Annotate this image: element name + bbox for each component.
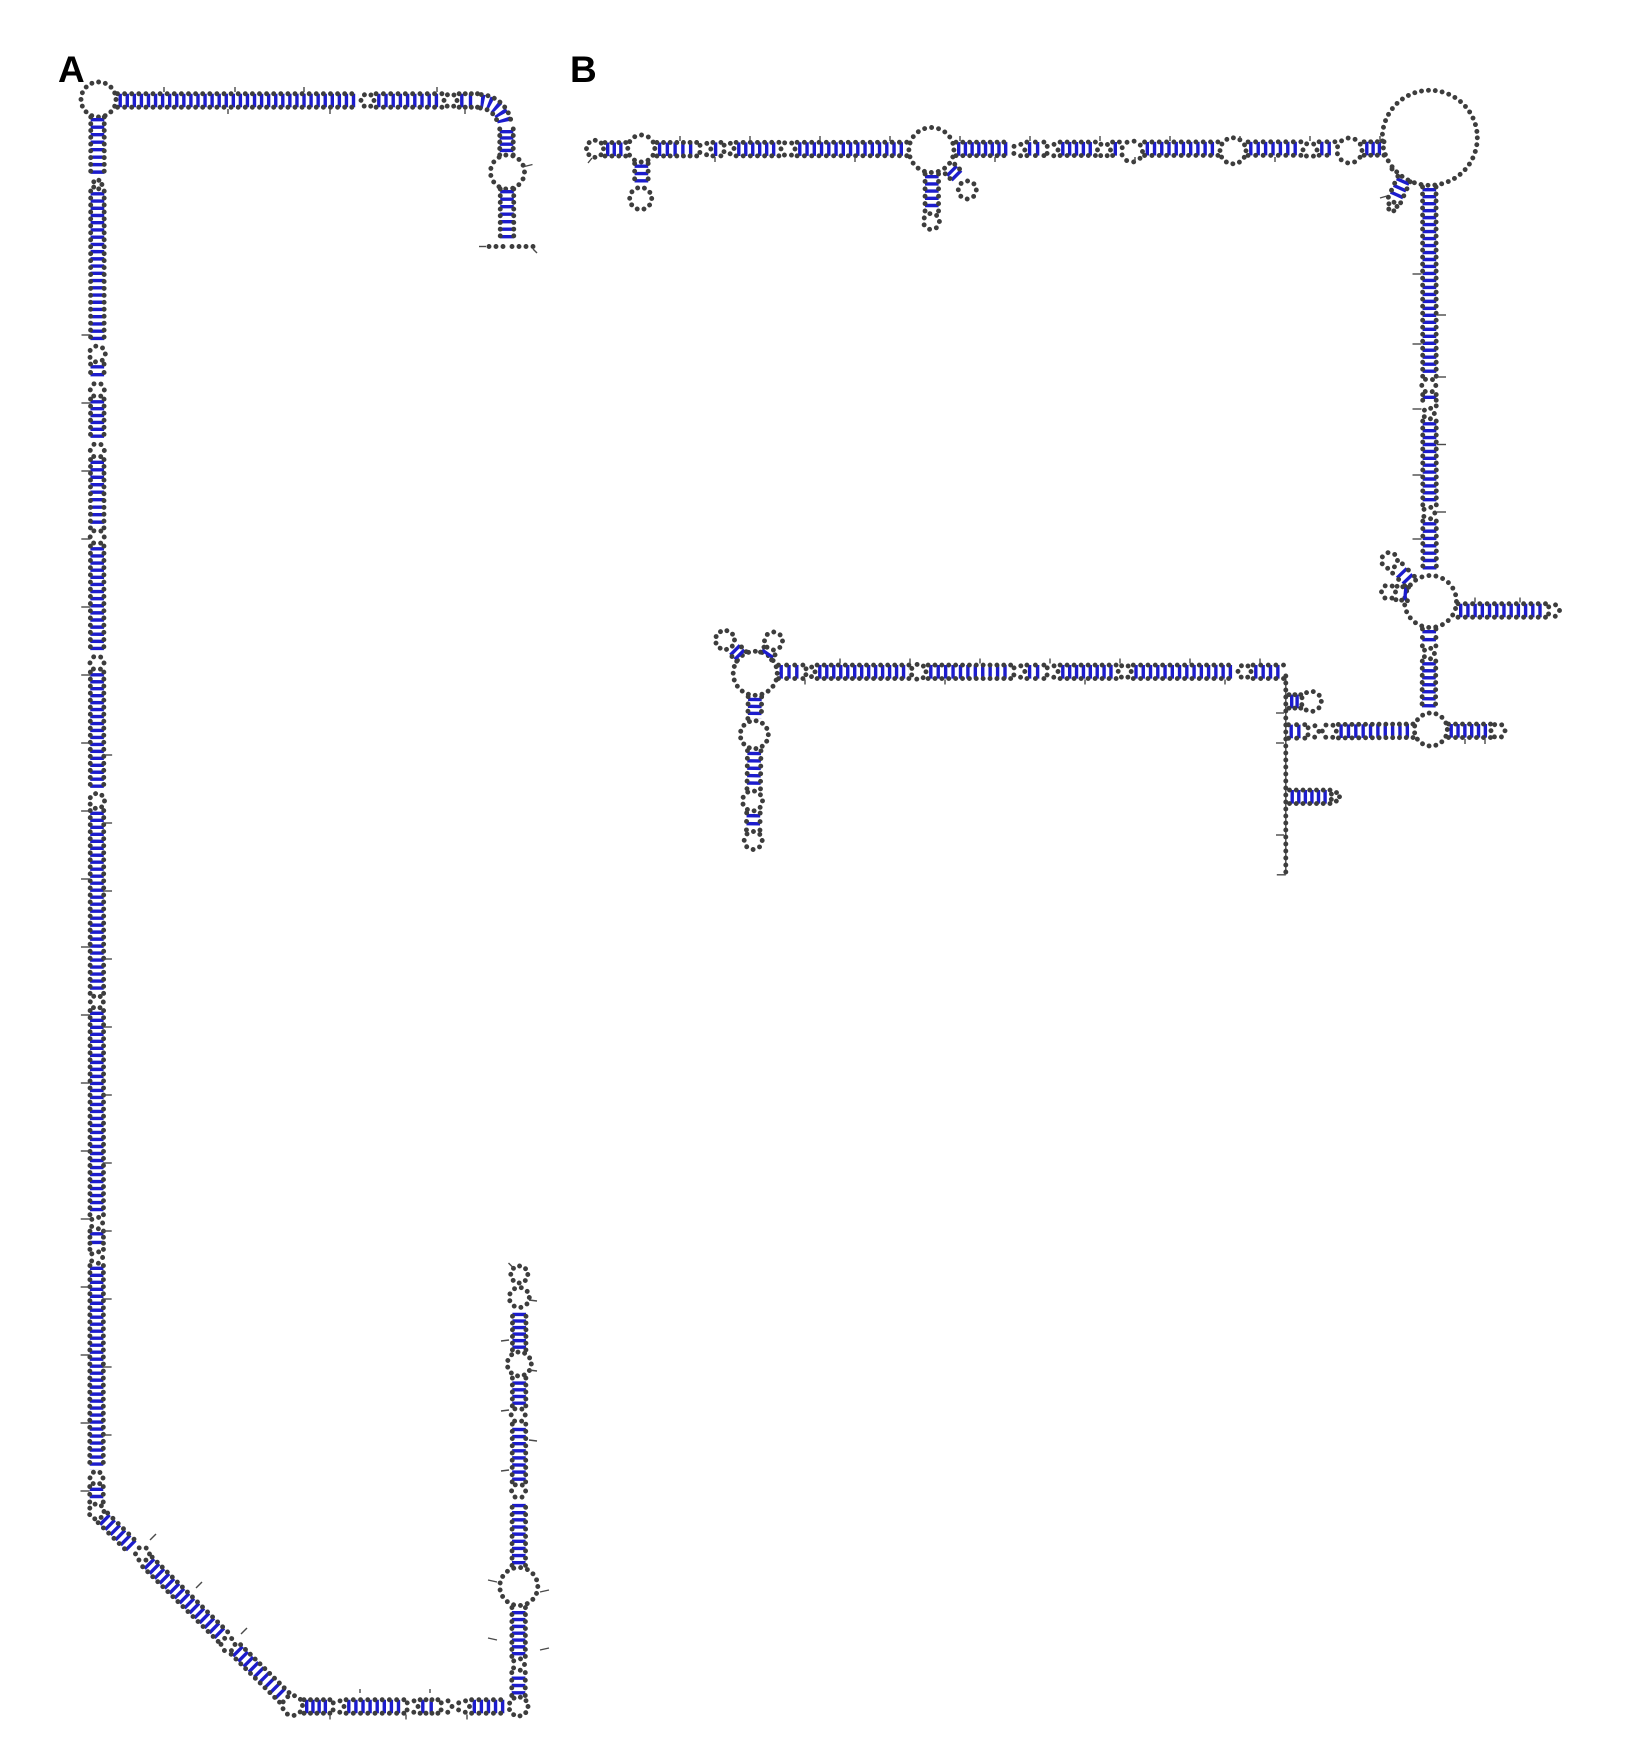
A interior loop right arm (491, 155, 533, 189)
B ticks (680, 136, 1520, 744)
B multiloop right helix (1458, 604, 1546, 618)
B big circle (1382, 90, 1477, 185)
B mid hairpin R stem (760, 647, 775, 660)
B single strand line (1276, 674, 1286, 875)
B loop2 diag stem (945, 164, 964, 183)
A hairpin loop top-left (81, 82, 116, 117)
B stub long cap (1331, 792, 1340, 801)
B mid hairpin R cap (765, 632, 783, 650)
A cap tick (509, 1263, 514, 1268)
B loop2 down stem (925, 174, 939, 211)
A free ends (479, 247, 537, 254)
A diagonal helix (98, 1513, 289, 1702)
B mid down stem (740, 697, 768, 830)
B stub small cap (1301, 691, 1321, 711)
B loop2 down cap (923, 214, 939, 230)
A bottom-left corner loop (283, 1696, 303, 1716)
B multiloop hairpin A stem (1393, 564, 1415, 586)
B loop2 diag cap (958, 181, 976, 199)
B multiloop right cap (1548, 605, 1560, 617)
A top horizontal helix (118, 94, 478, 108)
B multiloop down stem (1422, 629, 1436, 711)
A helix ticks (81, 335, 113, 1491)
B lower left helix (1288, 724, 1413, 738)
A right short stem lower (500, 189, 514, 243)
B middle horizontal helix (779, 664, 1284, 679)
B stub helix small (1289, 695, 1301, 709)
A bottom horizontal helix (304, 1700, 508, 1714)
B lower loop (1414, 713, 1447, 746)
B main horizontal helix (605, 128, 1384, 173)
A right short stem upper (500, 129, 514, 155)
A top helix ticks (164, 87, 465, 114)
B mid down cap (744, 832, 762, 850)
B multiloop (1405, 576, 1457, 628)
B lower right helix (1449, 724, 1491, 738)
A bottom helix ticks (330, 1689, 467, 1720)
B loop1 sub-stem (635, 164, 649, 187)
B mid multiloop (733, 651, 777, 695)
B loop1 sub-stem cap (630, 188, 652, 210)
B right vertical helix (1422, 187, 1437, 574)
A left vertical helix (89, 117, 105, 1502)
A right vertical ticks (488, 1300, 549, 1650)
B big circle mini hairpin (1380, 169, 1410, 211)
A bottom-left bend loop (89, 1504, 104, 1519)
B multiloop hairpin A cap (1382, 553, 1398, 569)
panel label B (570, 49, 597, 91)
B lower right cap (1491, 724, 1505, 738)
panel label A (58, 49, 85, 91)
B left cap loop (587, 140, 604, 157)
A right arm cap loop (511, 1266, 528, 1283)
A bottom-right corner loop (509, 1697, 528, 1716)
B mid hairpin L cap (716, 631, 735, 650)
B left cap tick (588, 158, 592, 163)
A top-right bend helix (480, 95, 511, 127)
B mid hairpin L stem (727, 642, 746, 661)
B multiloop hairpin B stem (1396, 586, 1409, 600)
A diagonal ticks (150, 1534, 247, 1634)
B stub helix long (1290, 790, 1331, 804)
B multiloop hairpin B cap (1382, 585, 1396, 599)
A right vertical helix (500, 1288, 538, 1696)
